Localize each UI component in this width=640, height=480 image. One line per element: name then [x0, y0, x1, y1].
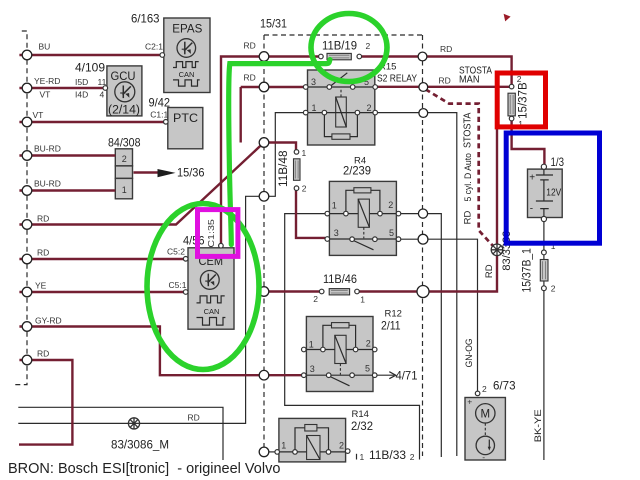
svg-text:4/56: 4/56 — [183, 234, 205, 248]
svg-text:RD: RD — [484, 264, 495, 278]
svg-text:2: 2 — [122, 154, 127, 164]
svg-text:3: 3 — [334, 228, 339, 238]
svg-text:11B/19: 11B/19 — [322, 41, 357, 53]
svg-text:M: M — [481, 409, 491, 421]
svg-text:I4D: I4D — [75, 90, 88, 100]
svg-text:STOSTA: STOSTA — [463, 112, 474, 148]
svg-text:3: 3 — [310, 364, 315, 374]
svg-text:BK-YE: BK-YE — [533, 409, 544, 442]
svg-text:12V: 12V — [546, 188, 561, 199]
svg-text:6/73: 6/73 — [493, 379, 516, 393]
svg-text:BU-RD: BU-RD — [34, 144, 61, 154]
svg-text:R12: R12 — [385, 308, 402, 319]
svg-text:R4: R4 — [354, 156, 366, 167]
svg-text:1/3: 1/3 — [551, 155, 565, 169]
svg-text:GY-RD: GY-RD — [35, 316, 62, 326]
svg-text:1: 1 — [360, 452, 365, 462]
svg-text:BU: BU — [39, 42, 51, 52]
svg-text:CAN: CAN — [179, 70, 195, 79]
svg-text:CAN: CAN — [204, 307, 220, 316]
svg-text:2: 2 — [366, 41, 371, 51]
svg-text:6/163: 6/163 — [131, 12, 160, 26]
svg-text:2: 2 — [551, 284, 556, 294]
svg-text:83/3086_M: 83/3086_M — [111, 440, 169, 452]
svg-text:+: + — [529, 172, 535, 183]
svg-text:C2:1: C2:1 — [145, 42, 163, 52]
svg-text:84/308: 84/308 — [108, 136, 141, 150]
svg-text:YE-RD: YE-RD — [34, 76, 60, 86]
svg-text:MAN: MAN — [459, 75, 480, 86]
svg-text:BRON: Bosch ESI[tronic] - ori: BRON: Bosch ESI[tronic] - origineel Volv… — [8, 461, 280, 477]
svg-text:+: + — [467, 396, 472, 406]
svg-text:1: 1 — [309, 339, 314, 349]
svg-text:R14: R14 — [352, 409, 369, 420]
svg-text:RD: RD — [188, 413, 200, 423]
svg-text:4/109: 4/109 — [75, 61, 105, 75]
svg-text:C1:1: C1:1 — [150, 109, 168, 119]
svg-text:GN-OG: GN-OG — [464, 338, 474, 367]
svg-text:11B/33: 11B/33 — [369, 450, 406, 462]
svg-text:4/71: 4/71 — [396, 369, 418, 383]
svg-text:-: - — [482, 452, 485, 462]
svg-text:2/32: 2/32 — [351, 419, 373, 433]
svg-text:YE: YE — [35, 281, 47, 291]
svg-text:2: 2 — [302, 183, 307, 193]
svg-text:2: 2 — [367, 103, 372, 113]
svg-text:S2 RELAY: S2 RELAY — [377, 73, 417, 84]
svg-text:11B/46: 11B/46 — [323, 274, 357, 286]
svg-text:15/36: 15/36 — [177, 166, 205, 180]
svg-text:RD: RD — [439, 75, 451, 85]
svg-text:PTC: PTC — [173, 111, 198, 125]
svg-text:RD: RD — [440, 44, 452, 54]
svg-text:C5:2: C5:2 — [167, 246, 185, 256]
svg-text:BU-RD: BU-RD — [34, 179, 61, 189]
svg-text:5: 5 — [389, 228, 394, 238]
svg-text:RD: RD — [37, 349, 49, 359]
svg-text:5: 5 — [365, 364, 370, 374]
svg-text:15/37B_1: 15/37B_1 — [522, 248, 534, 293]
svg-text:VT: VT — [40, 90, 51, 100]
svg-text:RD: RD — [463, 211, 474, 225]
svg-text:2: 2 — [366, 339, 371, 349]
svg-text:2/11: 2/11 — [381, 319, 401, 333]
svg-text:1: 1 — [122, 185, 127, 195]
svg-text:2: 2 — [313, 294, 318, 304]
svg-text:1: 1 — [281, 441, 286, 451]
svg-text:RD: RD — [37, 248, 49, 258]
svg-text:RD: RD — [244, 73, 256, 83]
svg-text:C1:35: C1:35 — [206, 219, 216, 248]
svg-text:15/31: 15/31 — [260, 17, 287, 31]
svg-text:(2/14): (2/14) — [108, 105, 140, 117]
svg-text:3: 3 — [311, 77, 316, 87]
svg-text:RD: RD — [37, 214, 49, 224]
svg-text:2: 2 — [410, 452, 415, 462]
svg-text:2: 2 — [482, 384, 487, 394]
svg-text:1: 1 — [312, 103, 317, 113]
svg-text:11B/48: 11B/48 — [278, 150, 290, 187]
svg-text:2: 2 — [339, 441, 344, 451]
svg-text:VT: VT — [33, 110, 44, 120]
svg-text:1: 1 — [360, 294, 365, 304]
svg-text:1: 1 — [332, 201, 337, 211]
svg-text:2: 2 — [388, 200, 393, 210]
svg-text:C5:1: C5:1 — [169, 280, 187, 290]
svg-text:RD: RD — [244, 41, 256, 51]
svg-text:GCU: GCU — [111, 69, 136, 83]
svg-text:4: 4 — [100, 90, 105, 100]
svg-text:I5D: I5D — [75, 77, 88, 87]
svg-text:1: 1 — [302, 148, 307, 158]
svg-text:11: 11 — [98, 77, 107, 87]
svg-text:EPAS: EPAS — [172, 22, 202, 36]
svg-text:15/37B: 15/37B — [518, 82, 530, 119]
svg-text:5 cyl. D Auto: 5 cyl. D Auto — [463, 153, 473, 201]
svg-text:-: - — [530, 204, 533, 215]
svg-text:9/42: 9/42 — [149, 96, 171, 110]
